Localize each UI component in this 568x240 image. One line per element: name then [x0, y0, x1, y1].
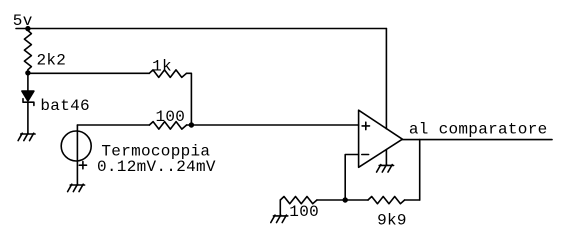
svg-text:1k: 1k — [152, 58, 172, 76]
wire 5v top rail — [16, 28, 386, 30]
node junction dot bottom of R 2k2 — [25, 70, 30, 75]
svg-text:2k2: 2k2 — [37, 52, 67, 70]
resistor 100 (top) — [149, 122, 186, 130]
resistor 100 (bottom) — [280, 197, 317, 204]
svg-text:100: 100 — [156, 108, 186, 126]
diode bat46 schottky cathode bar — [23, 99, 34, 106]
wire from 2k2 junction to R 1k — [28, 72, 149, 74]
wire between junction and 9k9 — [345, 199, 368, 201]
resistor 2k2 — [24, 29, 31, 73]
wire op-amp output — [402, 139, 552, 141]
wire R100 bottom left end down to ground — [279, 200, 281, 216]
wire through thermocouple source (vertical) — [76, 125, 78, 185]
resistor 1k — [149, 70, 186, 78]
wire from 2k2 junction down to diode — [27, 73, 29, 91]
wire +input rail to op-amp — [187, 124, 359, 126]
wire between R100 bottom and junction — [317, 199, 345, 201]
node junction dot R1k/R100 — [189, 122, 194, 127]
svg-text:bat46: bat46 — [40, 97, 90, 115]
wire diode to ground — [27, 102, 29, 134]
wire +input rail from corner above source to R100 — [77, 124, 149, 126]
op-amp minus input mark — [362, 154, 369, 156]
wire 5v vertical drop to op-amp top — [385, 29, 387, 129]
op-amp U1 triangle — [359, 110, 403, 167]
diode bat46 (schottky, anode triangle) — [22, 91, 34, 101]
node junction dot feedback/minus — [343, 197, 348, 202]
svg-text:9k9: 9k9 — [377, 212, 407, 230]
ground below bottom R100 — [271, 215, 288, 222]
svg-text:0.12mV..24mV: 0.12mV..24mV — [97, 158, 216, 176]
voltage source circle (Termocoppia) — [61, 131, 91, 161]
wire 1k right end to corner and down — [187, 73, 192, 125]
wire ground stub under op-amp — [385, 150, 387, 166]
ground below diode — [18, 133, 35, 140]
wire feedback vertical from output — [419, 140, 421, 200]
ground below op-amp — [377, 165, 394, 172]
node junction dot top of R 2k2 — [25, 26, 30, 31]
op-amp plus input mark — [362, 122, 369, 129]
svg-text:100: 100 — [289, 203, 319, 221]
resistor 9k9 — [368, 197, 405, 204]
plus polarity mark of source — [79, 162, 86, 169]
svg-text:al comparatore: al comparatore — [409, 120, 548, 138]
ground below source — [68, 184, 85, 191]
wire bottom rail right of 9k9 — [405, 199, 420, 201]
wire minus input — [345, 155, 358, 201]
svg-text:5v: 5v — [13, 12, 33, 30]
